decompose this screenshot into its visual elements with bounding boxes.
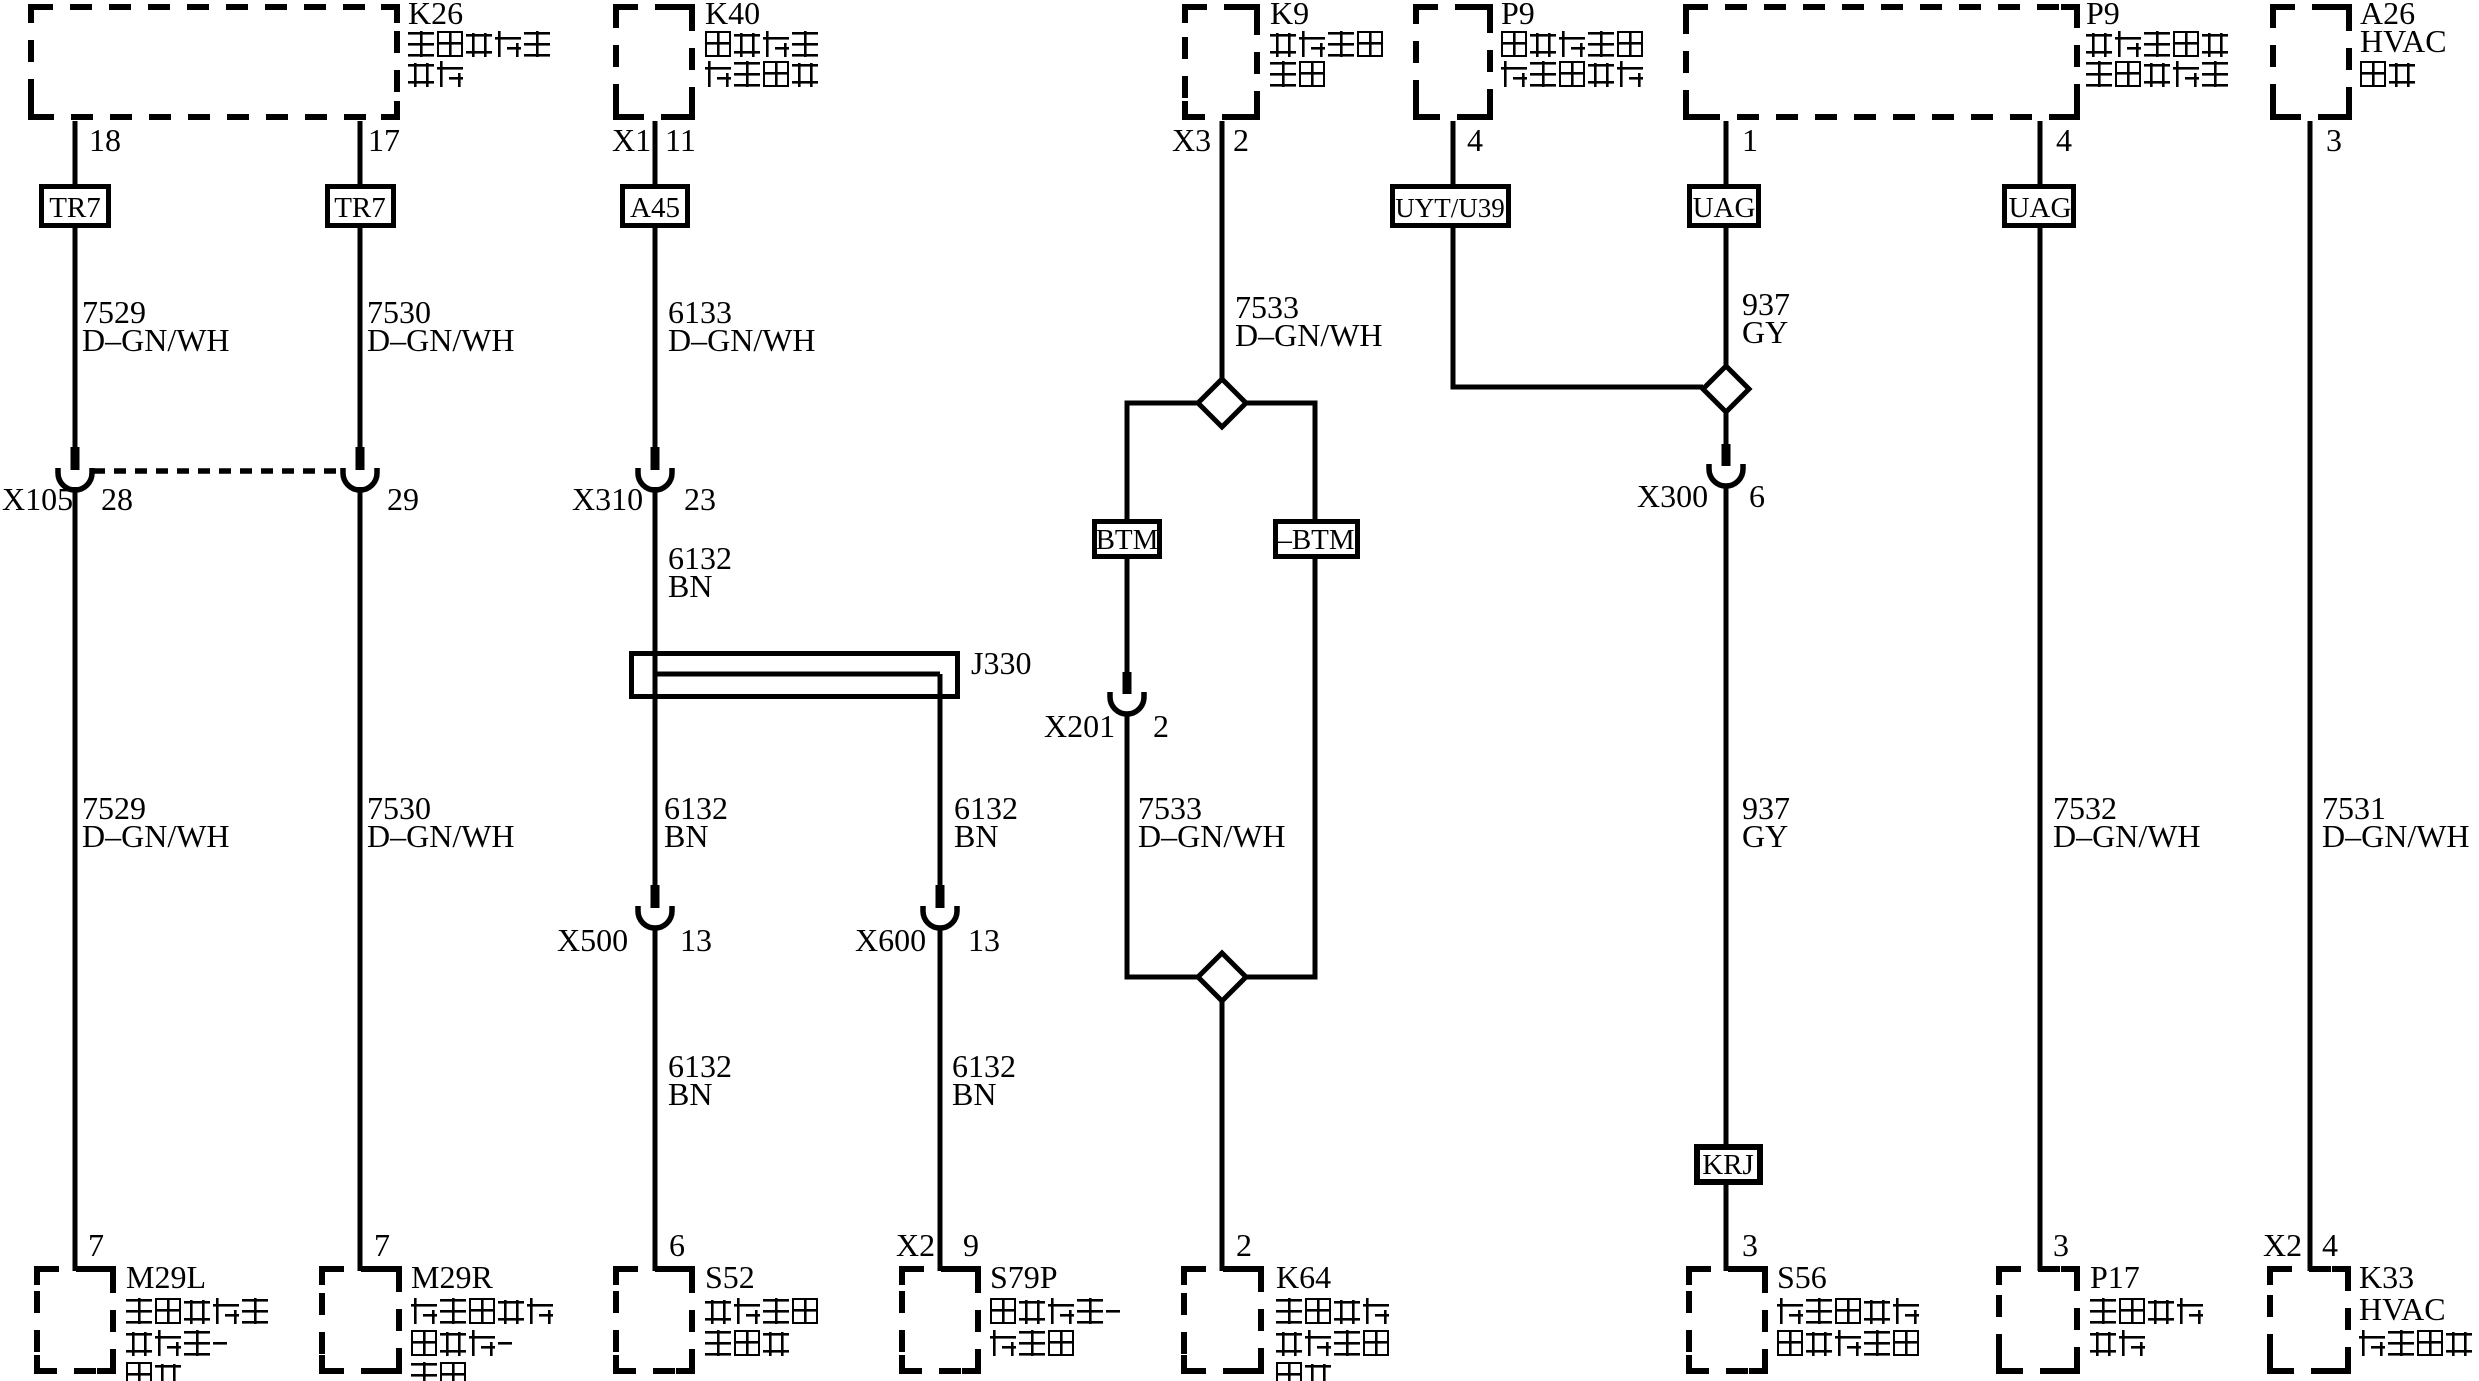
pin 4 label (P9 wide) [2056, 122, 2072, 158]
wire 6132 BN, X310 to splice pack J330 and on to X500 [653, 487, 658, 885]
svg-text:GY: GY [1742, 818, 1788, 854]
svg-text:4: 4 [2322, 1227, 2338, 1263]
circuit code BTM text [1096, 524, 1159, 556]
pin 11 label (K40) [665, 122, 696, 158]
wire color BN (below J330 right) [954, 818, 998, 854]
module designator A26 [2360, 0, 2415, 31]
wire P9 pin 4 (right) to circuit code UAG [2038, 121, 2043, 188]
connector X105 cavity 28 (pin and socket) [58, 447, 92, 490]
svg-text:X3: X3 [1172, 122, 1211, 158]
svg-text:HVAC: HVAC [2360, 23, 2447, 59]
svg-text:BN: BN [952, 1076, 996, 1112]
splice pack J330 internal bus bar [655, 672, 940, 677]
module S52 outside rearview mirror switch (dashed box) [616, 1269, 692, 1371]
wire color D-GN/WH (upper col3) [668, 322, 816, 358]
svg-text:2: 2 [1236, 1227, 1252, 1263]
module designator M29R [411, 1259, 493, 1295]
wire label 6132 (below X500) [668, 1048, 732, 1084]
connector name X300 [1637, 478, 1708, 514]
svg-text:A45: A45 [630, 192, 680, 224]
module K26 label line 3 (module) [408, 61, 466, 87]
module M29L label line 2 (headlamp leveling) [126, 1298, 271, 1324]
circuit code box TR7 (left) [42, 187, 109, 226]
wire 6132 BN, X500 to S52 pin 6 [653, 928, 658, 1271]
module M29L label line 3 (actuator-) [126, 1330, 229, 1356]
wire branch, splice to BTM and -BTM legs (top corners) [1127, 403, 1315, 524]
wire color GY (lower col7) [1742, 818, 1788, 854]
circuit code UAG text (right) [2009, 192, 2072, 224]
module designator K40 [705, 0, 760, 31]
svg-text:23: 23 [684, 481, 716, 517]
wire label 7532 [2053, 790, 2117, 826]
module K40 label line 2 (seat memory) [705, 31, 821, 57]
svg-text:D–GN/WH: D–GN/WH [367, 818, 515, 854]
wire label 7530 (lower) [367, 790, 431, 826]
connector X600 cavity 13 (pin and socket) [923, 885, 957, 928]
module designator S56 [1777, 1259, 1827, 1295]
module K9 label line 2 (body control) [1270, 31, 1386, 57]
wire 937 GY, splice to connector X300 [1724, 412, 1729, 444]
wire color D-GN/WH (upper col2) [367, 322, 515, 358]
svg-text:D–GN/WH: D–GN/WH [2322, 818, 2470, 854]
svg-text:X310: X310 [572, 481, 643, 517]
wire 7533 D-GN/WH, K9 pin X3-2 to splice [1220, 121, 1225, 403]
module S56 label line 2 (radio control) [1777, 1298, 1922, 1324]
wire 7533 D-GN/WH, splice to K64 pin 2 [1220, 1001, 1225, 1271]
cavity 6 label [1749, 478, 1765, 514]
module S56 label line 3 (multifunction switch) [1777, 1330, 1922, 1356]
svg-text:D–GN/WH: D–GN/WH [668, 322, 816, 358]
wire 7530 D-GN/WH, TR7 to connector X105 cavity 29 [358, 226, 363, 447]
module S56 radio control multifunction switch (dashed box) [1689, 1269, 1765, 1371]
svg-text:P17: P17 [2090, 1259, 2140, 1295]
pin 2 label (K64) [1236, 1227, 1252, 1263]
connector name X500 [557, 922, 628, 958]
svg-text:4: 4 [2056, 122, 2072, 158]
module designator K9 [1270, 0, 1309, 31]
module M29R label line 2 (headlamp leveling) [411, 1298, 556, 1324]
svg-text:29: 29 [387, 481, 419, 517]
dashed harness tie between connector X105 cavities 28 and 29 [93, 468, 343, 474]
pin 9 label (S79P) [963, 1227, 979, 1263]
svg-text:K33: K33 [2359, 1259, 2414, 1295]
connector name X105 [2, 481, 73, 517]
pin 18 label (K26) [89, 122, 121, 158]
svg-text:K9: K9 [1270, 0, 1309, 31]
pin 1 label (P9 wide) [1742, 122, 1758, 158]
wire 6133 D-GN/WH, A45 to connector X310 [653, 226, 658, 447]
wire 7529 D-GN/WH, TR7 to connector X105 [73, 226, 78, 447]
svg-text:11: 11 [665, 122, 696, 158]
pin 7 label (M29R) [374, 1227, 390, 1263]
svg-text:TR7: TR7 [49, 192, 101, 224]
wire 7533 D-GN/WH, X201 leg and -BTM leg rejoin (bottom corners) [1127, 556, 1315, 977]
circuit code box UYT/U39 [1393, 187, 1509, 226]
pin 7 label (M29L) [88, 1227, 104, 1263]
wire color D-GN/WH (upper col1) [82, 322, 230, 358]
pin 6 label (S52) [669, 1227, 685, 1263]
wire 937 GY, UAG to splice [1724, 226, 1729, 366]
svg-text:D–GN/WH: D–GN/WH [1235, 317, 1383, 353]
wire color BN (below X500) [668, 1076, 712, 1112]
module A26 HVAC control (dashed box) [2273, 7, 2349, 117]
splice (diamond) upper on wire 7533 [1198, 379, 1246, 427]
svg-text:K64: K64 [1276, 1259, 1331, 1295]
cavity 29 label [387, 481, 419, 517]
svg-text:X600: X600 [855, 922, 926, 958]
svg-text:D–GN/WH: D–GN/WH [1138, 818, 1286, 854]
module designator P9 (left) [1501, 0, 1535, 31]
splice pack J330 label [971, 645, 1031, 681]
wire P9 pin 1 to circuit code UAG [1724, 121, 1729, 188]
module A26 label line 3 (control) [2360, 61, 2418, 87]
svg-text:P9: P9 [2086, 0, 2120, 31]
svg-text:3: 3 [2053, 1227, 2069, 1263]
module K33 HVAC control module (dashed box) [2270, 1269, 2348, 1371]
svg-text:BTM: BTM [1096, 524, 1159, 556]
connector name X310 [572, 481, 643, 517]
pin 17 label (K26) [368, 122, 400, 158]
cavity 2 label [1153, 708, 1169, 744]
svg-text:X2: X2 [2263, 1227, 2302, 1263]
module K33 label line 3 (control module) [2359, 1330, 2475, 1356]
pin 2 label (K9) [1233, 122, 1249, 158]
wire 6132 BN, X600 to S79P pin X2-9 [938, 928, 943, 1271]
connector X300 cavity 6 (pin and socket) [1709, 444, 1743, 486]
wire color BN (below X600) [952, 1076, 996, 1112]
connector X105 cavity 29 (pin and socket) [343, 447, 377, 490]
wire color D-GN/WH (upper col5) [1235, 317, 1383, 353]
circuit code box TR7 (right) [328, 187, 394, 226]
module S79P label line 2 (window switch-) [990, 1298, 1122, 1324]
svg-text:P9: P9 [1501, 0, 1535, 31]
module P9 left label line 3 (center display) [1501, 61, 1646, 87]
cavity 13 label (X600) [968, 922, 1000, 958]
wire color D-GN/WH (lower col2) [367, 818, 515, 854]
wire color BN (below J330 left) [664, 818, 708, 854]
svg-text:J330: J330 [971, 645, 1031, 681]
svg-text:3: 3 [2326, 122, 2342, 158]
pin X3 label (K9) [1172, 122, 1211, 158]
svg-text:K40: K40 [705, 0, 760, 31]
svg-text:4: 4 [1467, 122, 1483, 158]
svg-text:BN: BN [668, 1076, 712, 1112]
splice (diamond) lower on wire 7533 [1198, 953, 1246, 1001]
svg-text:D–GN/WH: D–GN/WH [2053, 818, 2201, 854]
wire K40 pin X1-11 to circuit code A45 [653, 121, 658, 188]
module M29R headlamp leveling actuator right (dashed box) [322, 1269, 399, 1371]
circuit code box -BTM [1276, 522, 1358, 557]
svg-text:S52: S52 [705, 1259, 755, 1295]
wire label 7531 [2322, 790, 2386, 826]
svg-text:HVAC: HVAC [2359, 1291, 2446, 1327]
pin X2 label (K33) [2263, 1227, 2302, 1263]
module K26 headlamp control module (dashed box) [31, 7, 397, 117]
wire color D-GN/WH (lower col1) [82, 818, 230, 854]
module M29R label line 3 (actuator-) [411, 1330, 514, 1356]
circuit code box UAG (right) [2005, 187, 2074, 226]
wire KRJ to S56 pin 3 [1724, 1182, 1729, 1271]
wire K26 pin 18 to circuit code TR7 [73, 121, 78, 188]
module P17 label line 2 (information display) [2090, 1298, 2206, 1324]
svg-text:9: 9 [963, 1227, 979, 1263]
svg-text:2: 2 [1153, 708, 1169, 744]
svg-text:KRJ: KRJ [1702, 1149, 1754, 1181]
wire 937 GY, X300 to circuit code KRJ [1724, 485, 1729, 1150]
svg-text:X201: X201 [1044, 708, 1115, 744]
module designator K64 [1276, 1259, 1331, 1295]
pin 4 label (K33) [2322, 1227, 2338, 1263]
svg-text:X105: X105 [2, 481, 73, 517]
module K40 label line 3 (control module) [705, 61, 821, 87]
svg-text:UAG: UAG [2009, 192, 2072, 224]
svg-text:6: 6 [1749, 478, 1765, 514]
module M29L headlamp leveling actuator left (dashed box) [37, 1269, 113, 1371]
connector name X600 [855, 922, 926, 958]
circuit code A45 text [630, 192, 680, 224]
svg-text:GY: GY [1742, 314, 1788, 350]
svg-text:X2: X2 [896, 1227, 935, 1263]
pin X1 label (K40) [612, 122, 651, 158]
module P9 wide label line 2 (driver information) [2086, 31, 2231, 57]
svg-text:BN: BN [954, 818, 998, 854]
svg-text:X1: X1 [612, 122, 651, 158]
svg-text:TR7: TR7 [334, 192, 386, 224]
module P17 information display module (dashed box) [1999, 1269, 2077, 1371]
module P9 wide label line 3 (center display) [2086, 61, 2231, 87]
wire label 7530 (upper) [367, 294, 431, 330]
wire label 6132 (below X310) [668, 540, 732, 576]
circuit code TR7 text (left) [49, 192, 101, 224]
wire color D-GN/WH (lower col5) [1138, 818, 1286, 854]
wire label 937 (lower) [1742, 790, 1790, 826]
wire label 6133 (upper) [668, 294, 732, 330]
wire BTM leg to connector X201 [1125, 556, 1130, 672]
svg-text:–BTM: –BTM [1276, 524, 1354, 556]
splice (diamond) on wire 937 GY [1703, 366, 1749, 412]
wire label 6132 (below J330 left) [664, 790, 728, 826]
cavity 28 label [101, 481, 133, 517]
module M29R label line 4 (right side) [411, 1362, 469, 1381]
module K64 label line 4 (module) [1276, 1362, 1334, 1381]
module P9 driver information center display (dashed box, left) [1416, 7, 1490, 117]
module designator S79P [990, 1259, 1058, 1295]
module S79P label line 3 (passenger side) [990, 1330, 1077, 1356]
svg-text:D–GN/WH: D–GN/WH [82, 322, 230, 358]
wire color D-GN/WH (col9) [2322, 818, 2470, 854]
connector X201 cavity 2 (pin and socket) [1110, 672, 1144, 714]
svg-text:18: 18 [89, 122, 121, 158]
module designator M29L [126, 1259, 206, 1295]
module P9 left label line 2 (driver information) [1501, 31, 1646, 57]
module designator K33 [2359, 1259, 2414, 1295]
wire color D-GN/WH (col8) [2053, 818, 2201, 854]
circuit code -BTM text [1276, 524, 1354, 556]
module K9 body control module (dashed box) [1185, 7, 1257, 117]
pin 4 label (P9 left) [1467, 122, 1483, 158]
svg-text:17: 17 [368, 122, 400, 158]
module designator P9 (wide) [2086, 0, 2120, 31]
wire UYT/U39 down and right to splice on wire 937 [1453, 226, 1703, 387]
pin 3 label (A26) [2326, 122, 2342, 158]
wire label 7529 (upper) [82, 294, 146, 330]
module K26 label line 2 (headlamp control) [408, 31, 553, 57]
module K64 label line 3 (theft deterrent control) [1276, 1330, 1392, 1356]
svg-text:7: 7 [374, 1227, 390, 1263]
pin X2 label (S79P) [896, 1227, 935, 1263]
module K33 label line HVAC [2359, 1291, 2446, 1327]
svg-text:D–GN/WH: D–GN/WH [82, 818, 230, 854]
circuit code box KRJ [1697, 1147, 1760, 1182]
wire color BN (below X310) [668, 568, 712, 604]
module designator S52 [705, 1259, 755, 1295]
wire P9 pin 4 to circuit code UYT/U39 [1451, 121, 1456, 188]
wire 7530 D-GN/WH, X105 to M29R pin 7 [358, 487, 363, 1271]
svg-text:X500: X500 [557, 922, 628, 958]
connector name X201 [1044, 708, 1115, 744]
svg-text:S79P: S79P [990, 1259, 1058, 1295]
module K9 label line 3 (module) [1270, 61, 1328, 87]
svg-text:28: 28 [101, 481, 133, 517]
wire label 6132 (below J330 right) [954, 790, 1018, 826]
svg-text:13: 13 [968, 922, 1000, 958]
svg-text:BN: BN [668, 568, 712, 604]
wire label 7533 (upper) [1235, 289, 1299, 325]
wire label 6132 (below X600) [952, 1048, 1016, 1084]
wire 7529 D-GN/WH, X105 to M29L pin 7 [73, 487, 78, 1271]
svg-text:6: 6 [669, 1227, 685, 1263]
wire K26 pin 17 to circuit code TR7 [358, 121, 363, 188]
module K40 seat memory control module (dashed box) [616, 7, 692, 117]
connector X500 cavity 13 (pin and socket) [638, 885, 672, 928]
module K64 label line 2 (interior items) [1276, 1298, 1392, 1324]
circuit code UYT/U39 text [1395, 193, 1505, 223]
svg-text:2: 2 [1233, 122, 1249, 158]
wire 7532 D-GN/WH, UAG to P17 pin 3 [2038, 226, 2043, 1271]
circuit code UAG text (left) [1693, 192, 1756, 224]
svg-text:1: 1 [1742, 122, 1758, 158]
circuit code box UAG (left) [1690, 187, 1759, 226]
module A26 label line HVAC [2360, 23, 2447, 59]
svg-text:7: 7 [88, 1227, 104, 1263]
circuit code box BTM [1095, 522, 1160, 557]
module K64 theft deterrent control module (dashed box) [1184, 1269, 1261, 1371]
svg-text:S56: S56 [1777, 1259, 1827, 1295]
connector X310 cavity 23 (pin and socket) [638, 447, 672, 490]
module S79P window switch passenger side (dashed box) [902, 1269, 978, 1371]
svg-text:3: 3 [1742, 1227, 1758, 1263]
module P9 driver information center display (dashed box, wide) [1686, 7, 2077, 117]
wire color GY (upper col7) [1742, 314, 1788, 350]
module designator K26 [408, 0, 463, 31]
svg-text:X300: X300 [1637, 478, 1708, 514]
svg-text:M29L: M29L [126, 1259, 206, 1295]
module M29L label line 4 (left side) [126, 1362, 184, 1381]
wire label 7533 (lower) [1138, 790, 1202, 826]
splice pack J330 (outer box) [632, 654, 958, 697]
svg-text:13: 13 [680, 922, 712, 958]
module S52 label line 2 (outside rearview) [705, 1298, 821, 1324]
wire 6132 BN, J330 bus to connector X600 [938, 674, 943, 885]
svg-text:K26: K26 [408, 0, 463, 31]
svg-text:UAG: UAG [1693, 192, 1756, 224]
module S52 label line 3 (mirror switch) [705, 1330, 792, 1356]
cavity 23 label [684, 481, 716, 517]
wire label 7529 (lower) [82, 790, 146, 826]
wire 7531 D-GN/WH, A26 pin 3 to K33 pin X2-4 [2308, 121, 2313, 1271]
svg-text:BN: BN [664, 818, 708, 854]
wire label 937 (upper) [1742, 286, 1790, 322]
svg-text:M29R: M29R [411, 1259, 493, 1295]
cavity 13 label (X500) [680, 922, 712, 958]
module designator P17 [2090, 1259, 2140, 1295]
module P17 label line 3 (module) [2090, 1330, 2148, 1356]
svg-text:D–GN/WH: D–GN/WH [367, 322, 515, 358]
pin 3 label (P17) [2053, 1227, 2069, 1263]
svg-text:UYT/U39: UYT/U39 [1395, 193, 1505, 223]
circuit code TR7 text (right) [334, 192, 386, 224]
circuit code KRJ text [1702, 1149, 1754, 1181]
pin 3 label (S56) [1742, 1227, 1758, 1263]
circuit code box A45 [623, 187, 688, 226]
